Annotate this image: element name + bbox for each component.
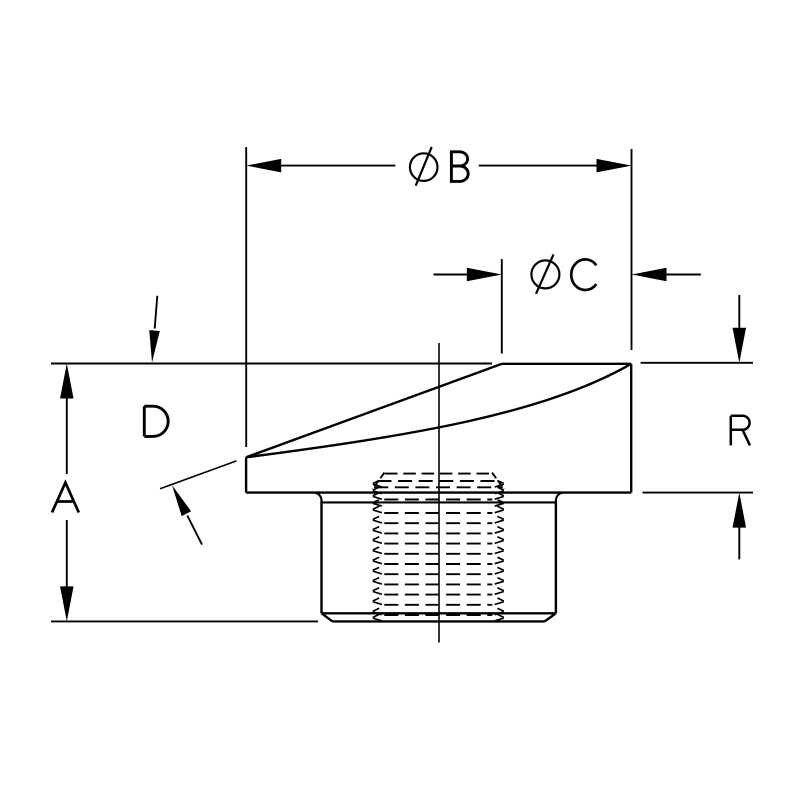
bottom chamfer left [322, 613, 333, 621]
label dia symbol for C [531, 254, 559, 293]
fillet tangent edge line [322, 501, 556, 503]
dia-C left extension line [501, 259, 503, 354]
hidden thread crest chevrons left column [373, 481, 382, 621]
D leader 1 tail [155, 296, 158, 329]
dia-C dimension line left tail [434, 274, 469, 276]
dia-B dimension line right segment [479, 165, 598, 167]
hidden thread root lines (dashed rows) [374, 481, 503, 615]
top face datum line (extension for A, D) [51, 363, 492, 365]
hidden thread: drill cone left slant [373, 473, 385, 489]
bottom chamfer right [545, 613, 556, 621]
D leader 1 arrowhead (down onto datum) [149, 330, 160, 362]
A top arrowhead (up) [60, 364, 74, 399]
R dimension line lower segment [738, 525, 740, 559]
label dia symbol for B [410, 147, 438, 186]
dia-C right arrowhead (pointing left) [632, 268, 667, 282]
A dimension line upper segment [66, 396, 68, 474]
label letter A [52, 483, 79, 513]
R dimension line upper segment [738, 295, 740, 330]
R bottom arrowhead (up) [733, 493, 747, 528]
stud right edge [555, 501, 557, 614]
R top extension line [641, 362, 753, 364]
dia-C left arrowhead (pointing right) [467, 268, 502, 282]
bottom chamfer top edge [322, 612, 556, 614]
R top arrowhead (down) [733, 328, 747, 363]
hidden thread: drill cone top edge [385, 473, 493, 475]
stud left edge [320, 501, 322, 614]
left fillet stud-to-flange [314, 493, 322, 501]
top flat edge [502, 363, 631, 365]
label letter C [571, 259, 596, 290]
label letter R [731, 416, 750, 446]
dia-B left extension line [245, 147, 247, 447]
hidden thread crest chevrons right column [495, 481, 504, 621]
D leader 2 arrowhead (up-left onto angled line) [172, 485, 191, 516]
vertical centerline [438, 343, 440, 643]
dia-B dimension line left segment [279, 165, 395, 167]
D angled reference line (cam edge extended) [160, 461, 237, 489]
A bottom arrowhead (down) [60, 586, 74, 621]
R bottom extension line [643, 492, 754, 494]
dia-B / dia-C right extension line [631, 149, 633, 350]
dia-C dimension line right tail [665, 274, 701, 276]
bottom face extension line for A [51, 620, 318, 622]
dia-B left arrowhead [246, 159, 281, 173]
part left edge (cam tip face) [245, 457, 247, 492]
dia-B right arrowhead [597, 159, 632, 173]
label letter D [144, 406, 168, 436]
cam straight top edge [246, 364, 502, 458]
label letter B [451, 152, 468, 182]
right fillet stud-to-flange [556, 493, 564, 501]
A dimension line lower segment [66, 520, 68, 588]
hidden thread: drill cone right slant [492, 473, 504, 489]
D leader 2 tail [187, 516, 202, 545]
flange bottom face edge [246, 491, 631, 493]
stud bottom face edge [332, 620, 544, 622]
cam helical silhouette curve [246, 364, 631, 458]
part right edge [630, 364, 632, 493]
